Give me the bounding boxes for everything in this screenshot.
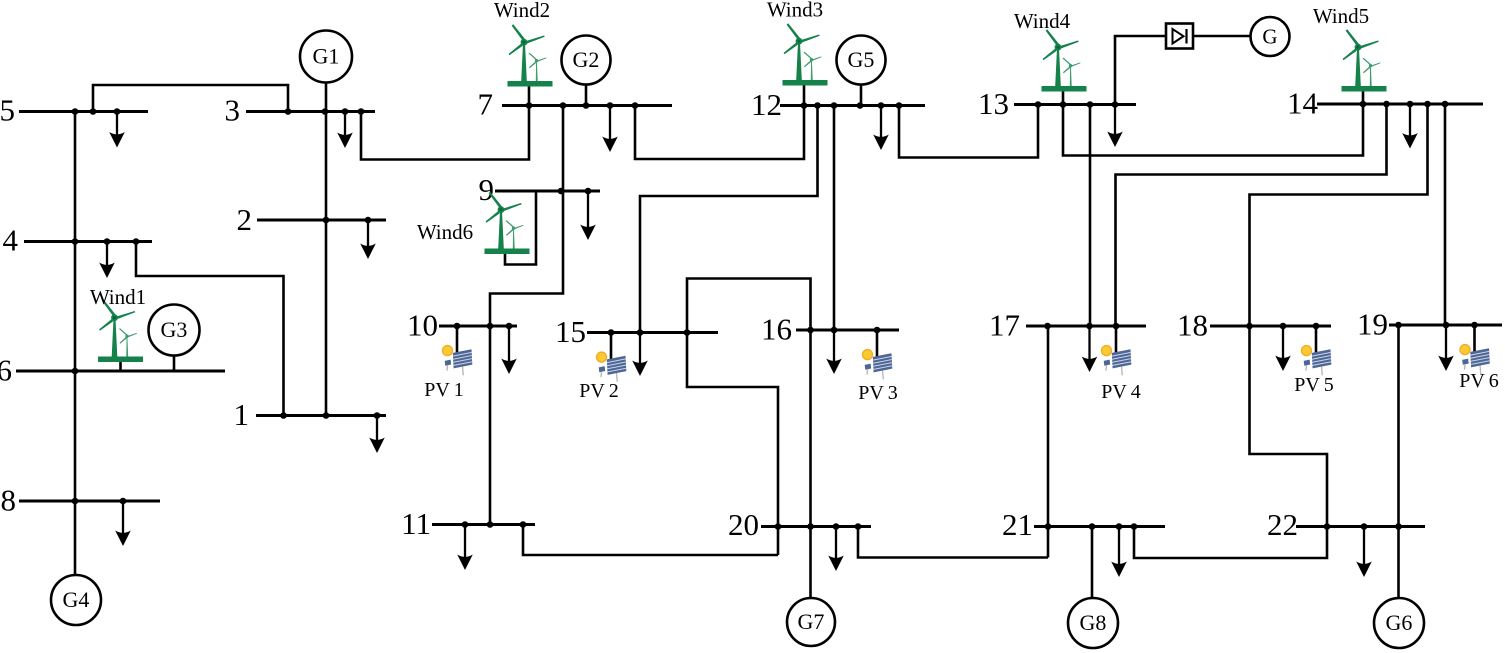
svg-text:2: 2 bbox=[237, 202, 253, 237]
PV4 label bbox=[1101, 381, 1141, 403]
svg-text:9: 9 bbox=[479, 172, 495, 207]
svg-text:7: 7 bbox=[478, 87, 494, 122]
Wind2 label bbox=[494, 0, 550, 22]
svg-text:G2: G2 bbox=[573, 47, 600, 72]
load arrow at bus 14 bbox=[1402, 104, 1418, 149]
bus 9 label bbox=[479, 172, 495, 207]
wire Wind3 stem bbox=[803, 84, 806, 106]
load arrow at bus 15 bbox=[632, 333, 648, 377]
wire bus5 to bus3 (top loop) bbox=[93, 85, 288, 112]
bus 12 label bbox=[751, 87, 782, 122]
bus 9 bbox=[495, 188, 600, 195]
svg-text:PV 2: PV 2 bbox=[579, 380, 619, 402]
solar PV PV1 bbox=[443, 326, 473, 375]
svg-text:10: 10 bbox=[407, 308, 438, 343]
solar PV PV2 bbox=[597, 333, 627, 382]
wind turbine Wind4 bbox=[1042, 29, 1087, 91]
load arrow at bus 11 bbox=[457, 525, 473, 571]
load arrow at bus 16 bbox=[826, 330, 842, 374]
bus 11 label bbox=[401, 506, 431, 541]
bus 1 label bbox=[234, 397, 250, 432]
PV3 label bbox=[858, 382, 898, 404]
PV1 label bbox=[424, 379, 464, 401]
bus 6 label bbox=[0, 353, 12, 388]
bus 11 bbox=[432, 521, 535, 528]
bus 1 bbox=[256, 412, 386, 419]
bus 8 label bbox=[1, 483, 17, 518]
bus 15 bbox=[587, 329, 718, 336]
bus 21 bbox=[1034, 523, 1165, 530]
bus 13 bbox=[1014, 101, 1136, 108]
bus 10 label bbox=[407, 308, 438, 343]
bus 7 label bbox=[478, 87, 494, 122]
svg-text:G6: G6 bbox=[1386, 610, 1413, 635]
bus 19 label bbox=[1357, 307, 1388, 342]
wire Wind2 stem bbox=[528, 84, 531, 106]
svg-text:G3: G3 bbox=[161, 317, 188, 342]
wire bus19 to bus22 to G6 bbox=[1397, 325, 1400, 598]
Wind5 label bbox=[1313, 4, 1369, 28]
svg-text:G1: G1 bbox=[313, 44, 340, 69]
svg-text:Wind2: Wind2 bbox=[494, 0, 550, 22]
bus 7 bbox=[502, 102, 672, 109]
load arrow at bus 12 bbox=[873, 106, 889, 151]
svg-text:16: 16 bbox=[761, 312, 792, 347]
generator G1 bbox=[300, 31, 352, 83]
svg-text:G8: G8 bbox=[1080, 610, 1107, 635]
PV2 label bbox=[579, 380, 619, 402]
svg-text:Wind4: Wind4 bbox=[1014, 9, 1071, 33]
load arrow at bus 7 bbox=[602, 106, 618, 153]
bus 10 bbox=[439, 323, 517, 330]
wire bus14 to bus17 bbox=[1116, 104, 1387, 326]
solar PV PV6 bbox=[1460, 325, 1490, 374]
svg-text:4: 4 bbox=[3, 223, 19, 258]
svg-text:G: G bbox=[1262, 25, 1277, 49]
wire bus13 to bus17 bbox=[1089, 105, 1092, 327]
svg-text:11: 11 bbox=[401, 506, 431, 541]
bus 2 bbox=[257, 217, 386, 224]
svg-text:18: 18 bbox=[1177, 308, 1208, 343]
wire Wind5 stem bbox=[1362, 90, 1365, 104]
wind turbine Wind1 bbox=[98, 300, 143, 362]
bus 15 label bbox=[555, 314, 586, 349]
PV5 label bbox=[1294, 374, 1334, 396]
bus 4 bbox=[24, 238, 152, 245]
wire G1-bus3-bus2-bus1 vertical bbox=[325, 83, 328, 416]
wire bus13 to rectifier bbox=[1115, 36, 1166, 105]
solar PV PV3 bbox=[863, 330, 893, 379]
load arrow at bus 5 bbox=[109, 112, 125, 148]
wire bus7 to bus12 bbox=[635, 106, 804, 160]
generator G6 bbox=[1374, 598, 1424, 648]
bus 3 bbox=[246, 108, 375, 115]
load arrow at bus 1 bbox=[369, 416, 385, 454]
svg-text:Wind5: Wind5 bbox=[1313, 4, 1369, 28]
svg-text:PV 4: PV 4 bbox=[1101, 381, 1141, 403]
bus 18 label bbox=[1177, 308, 1208, 343]
svg-text:PV 1: PV 1 bbox=[424, 379, 464, 401]
svg-text:G5: G5 bbox=[848, 47, 875, 72]
load arrow at bus 22 bbox=[1356, 527, 1372, 578]
PV6 label bbox=[1459, 370, 1499, 392]
wire G5 stem bbox=[860, 84, 863, 106]
bus 17 label bbox=[989, 308, 1020, 343]
wire bus17 to bus21 bbox=[1047, 326, 1050, 558]
load arrow at bus 2 bbox=[360, 220, 376, 259]
load arrow at bus 4 bbox=[99, 242, 115, 279]
bus 12 bbox=[780, 102, 925, 109]
wire bus15 to bus20 bbox=[687, 333, 778, 556]
Wind1 label bbox=[90, 285, 146, 309]
wire bus4 to bus1 bbox=[136, 242, 284, 416]
svg-text:13: 13 bbox=[978, 86, 1009, 121]
svg-text:PV 6: PV 6 bbox=[1459, 370, 1499, 392]
wire G3 stem bbox=[173, 354, 176, 371]
svg-text:Wind6: Wind6 bbox=[417, 220, 473, 244]
wind turbine Wind3 bbox=[783, 23, 828, 85]
svg-text:G4: G4 bbox=[63, 587, 90, 612]
svg-text:12: 12 bbox=[751, 87, 782, 122]
svg-text:22: 22 bbox=[1267, 507, 1298, 542]
load arrow at bus 13 bbox=[1107, 105, 1123, 148]
Wind3 label bbox=[767, 0, 823, 22]
bus 16 bbox=[796, 327, 899, 334]
generator G4 bbox=[51, 575, 101, 625]
svg-text:PV 5: PV 5 bbox=[1294, 374, 1334, 396]
bus 20 label bbox=[728, 507, 759, 542]
Wind6 label bbox=[417, 220, 473, 244]
wire bus7-bus9-bus10-bus11 vertical bbox=[490, 106, 563, 525]
svg-text:14: 14 bbox=[1287, 86, 1319, 121]
load arrow at bus 21 bbox=[1111, 527, 1127, 578]
solar PV PV5 bbox=[1302, 326, 1332, 375]
bus 16 label bbox=[761, 312, 792, 347]
svg-text:5: 5 bbox=[0, 93, 15, 128]
wire bus20 to bus21 bbox=[858, 527, 1048, 558]
wind turbine Wind6 bbox=[485, 192, 530, 254]
svg-text:PV 3: PV 3 bbox=[858, 382, 898, 404]
svg-text:20: 20 bbox=[728, 507, 759, 542]
load arrow at bus 20 bbox=[828, 527, 844, 572]
generator G2 bbox=[562, 36, 611, 85]
svg-text:19: 19 bbox=[1357, 307, 1388, 342]
svg-text:15: 15 bbox=[555, 314, 586, 349]
bus 5 label bbox=[0, 93, 15, 128]
wire bus12 to bus16 bbox=[833, 106, 836, 331]
bus 21 label bbox=[1002, 507, 1033, 542]
wire bus12 to bus15 bbox=[640, 106, 818, 333]
wire bus12 to bus13 bbox=[899, 105, 1038, 158]
bus 18 bbox=[1210, 323, 1331, 330]
wire rectifier to G bbox=[1193, 35, 1251, 38]
wire Wind4 stem bbox=[1062, 90, 1065, 105]
svg-text:1: 1 bbox=[234, 397, 250, 432]
wire bus16 to bus20 bbox=[809, 330, 812, 527]
wire bus5-bus4-bus6-bus8-G4 vertical bbox=[74, 112, 77, 576]
bus 6 bbox=[16, 368, 225, 375]
bus 4 label bbox=[3, 223, 19, 258]
bus 22 bbox=[1296, 523, 1425, 530]
wire bus15 to bus16 bbox=[687, 279, 811, 333]
svg-text:3: 3 bbox=[225, 93, 241, 128]
svg-text:Wind3: Wind3 bbox=[767, 0, 823, 22]
svg-text:G7: G7 bbox=[798, 609, 825, 634]
wire bus3 to bus7 bbox=[361, 106, 529, 160]
load arrow at bus 18 bbox=[1275, 326, 1291, 371]
load arrow at bus 10 bbox=[501, 326, 517, 374]
wire Wind1 stem bbox=[119, 360, 122, 371]
wire bus11 to bus20 bbox=[523, 525, 778, 556]
wire Wind6 loop to bus9 bbox=[505, 191, 536, 265]
bus 13 label bbox=[978, 86, 1009, 121]
wind turbine Wind5 bbox=[1342, 29, 1387, 91]
bus 17 bbox=[1026, 323, 1146, 330]
load arrow at bus 19 bbox=[1438, 325, 1454, 371]
bus 20 bbox=[761, 523, 871, 530]
wire bus14 to bus19 bbox=[1444, 104, 1447, 325]
svg-text:8: 8 bbox=[1, 483, 17, 518]
bus 8 bbox=[19, 498, 160, 505]
bus 14 label bbox=[1287, 86, 1319, 121]
bus 5 bbox=[19, 108, 148, 115]
wire G2 stem bbox=[585, 84, 588, 106]
rectifier (diode box) bbox=[1166, 24, 1193, 49]
generator G8 bbox=[1068, 527, 1118, 649]
load arrow at bus 17 bbox=[1082, 326, 1098, 372]
svg-text:Wind1: Wind1 bbox=[90, 285, 146, 309]
bus 19 bbox=[1389, 322, 1502, 329]
svg-text:21: 21 bbox=[1002, 507, 1033, 542]
load arrow at bus 3 bbox=[337, 112, 353, 149]
solar PV PV4 bbox=[1102, 326, 1132, 375]
bus 14 bbox=[1317, 101, 1483, 108]
wire bus13 to bus14 bbox=[1063, 104, 1363, 156]
bus 22 label bbox=[1267, 507, 1298, 542]
generator G5 bbox=[837, 36, 886, 85]
wire bus14 to bus18 to bus22 to bus21 bbox=[1134, 104, 1428, 558]
bus 3 label bbox=[225, 93, 241, 128]
generator G3 bbox=[149, 305, 200, 356]
bus 2 label bbox=[237, 202, 253, 237]
generator G7 bbox=[787, 527, 835, 647]
svg-text:17: 17 bbox=[989, 308, 1020, 343]
Wind4 label bbox=[1014, 9, 1071, 33]
load arrow at bus 8 bbox=[115, 501, 131, 546]
load arrow at bus 9 bbox=[580, 191, 596, 240]
svg-text:6: 6 bbox=[0, 353, 12, 388]
generator G bbox=[1251, 17, 1290, 56]
wind turbine Wind2 bbox=[508, 24, 553, 86]
